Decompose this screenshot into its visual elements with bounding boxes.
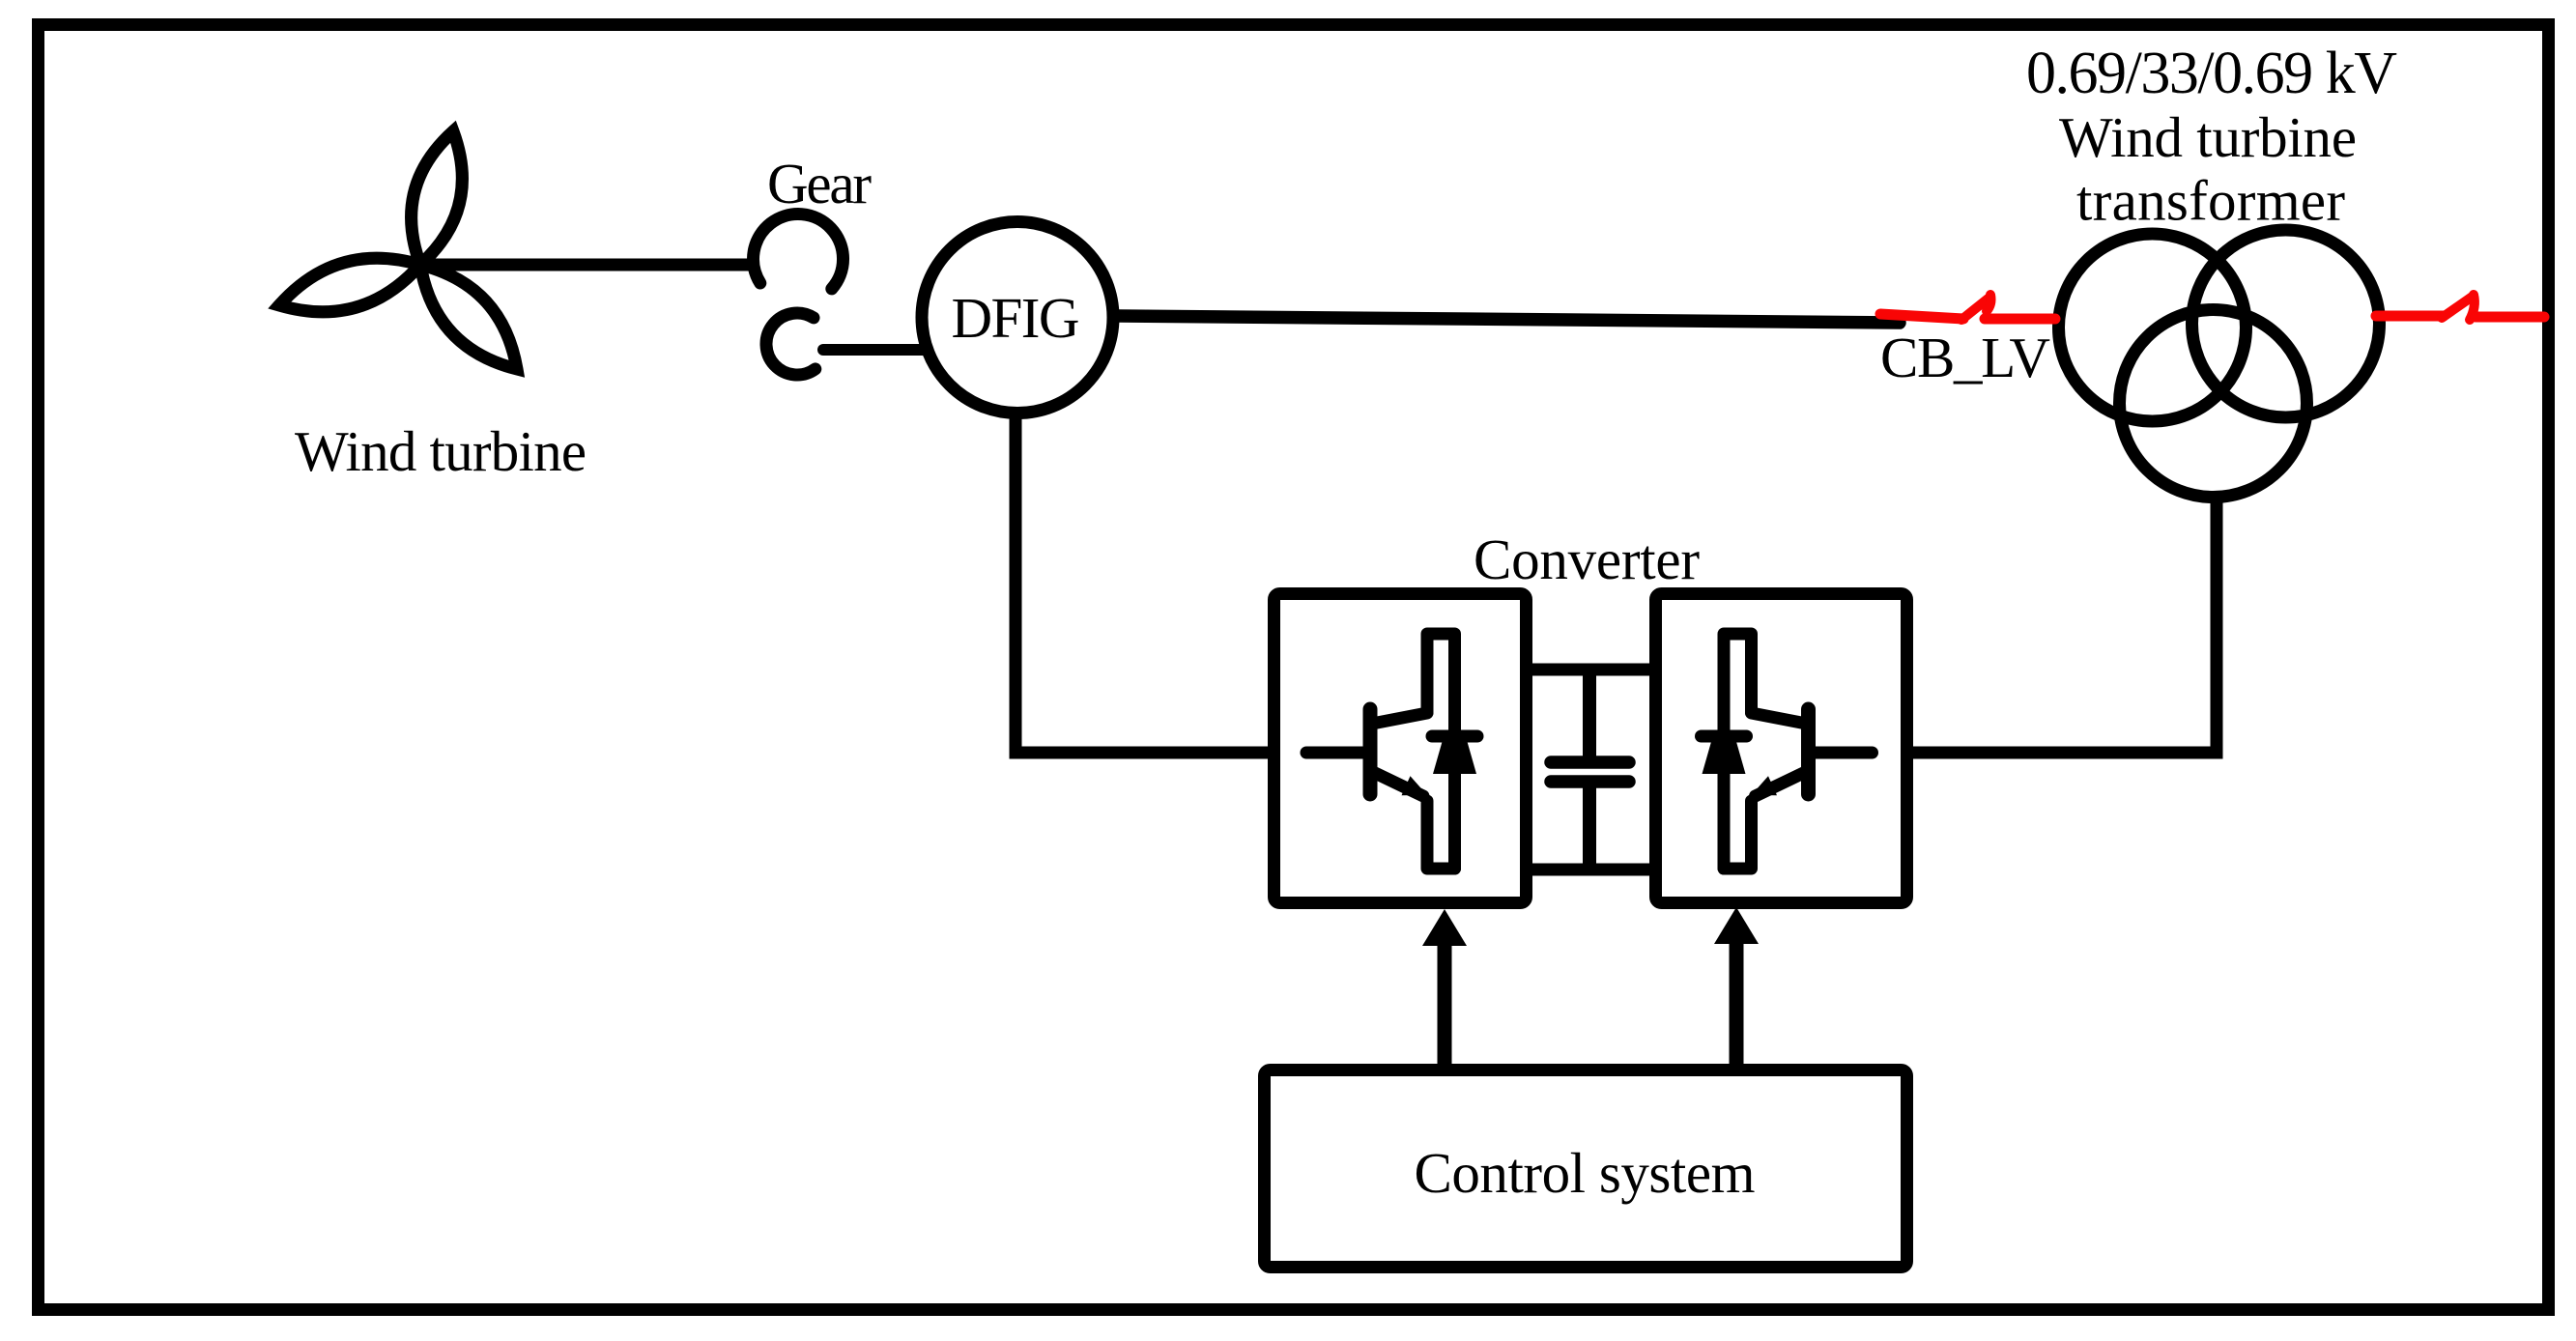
svg-text:Control system: Control system: [1415, 1141, 1756, 1205]
svg-text:Converter: Converter: [1474, 528, 1700, 591]
svg-text:Wind turbine: Wind turbine: [2059, 105, 2357, 169]
svg-text:CB_LV: CB_LV: [1880, 326, 2050, 389]
svg-text:transformer: transformer: [2076, 169, 2345, 233]
svg-text:Gear: Gear: [767, 152, 872, 215]
svg-text:Wind turbine: Wind turbine: [295, 419, 587, 483]
svg-text:0.69/33/0.69 kV: 0.69/33/0.69 kV: [2026, 41, 2397, 106]
svg-text:DFIG: DFIG: [952, 286, 1080, 350]
